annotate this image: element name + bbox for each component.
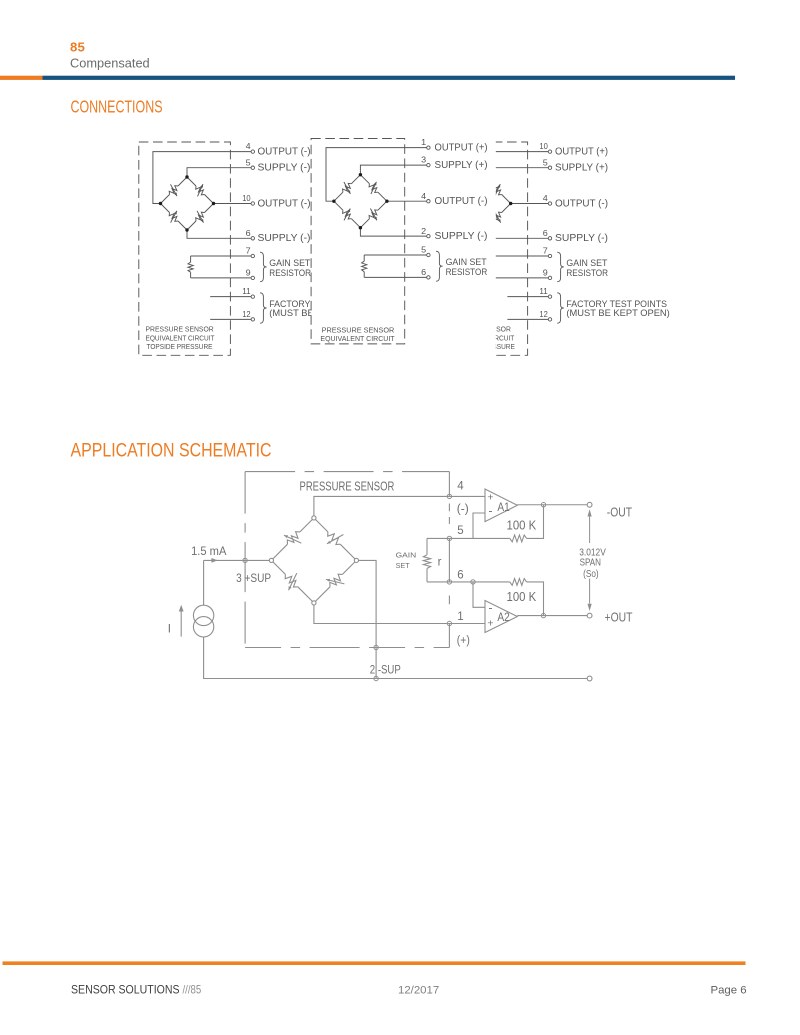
wire A2 output to +OUT xyxy=(517,615,587,617)
circuit 2 terminal pin 1 xyxy=(427,146,430,149)
circuit 3 terminal pin 6 xyxy=(548,237,551,240)
current source I xyxy=(193,605,213,625)
circuit 2 terminal pin 4 xyxy=(427,200,430,203)
wire A2 non-inverting input xyxy=(449,623,485,625)
svg-text:A1: A1 xyxy=(497,500,510,514)
circuit 1 gain set brace xyxy=(260,252,267,282)
svg-text:2: 2 xyxy=(421,226,426,236)
circuit 1 factory test point wires xyxy=(210,297,251,320)
svg-text:3 +SUP: 3 +SUP xyxy=(236,571,271,585)
terminal pin 2 -SUP xyxy=(374,645,378,649)
op-amp A1 xyxy=(485,489,517,522)
svg-text:11: 11 xyxy=(539,286,548,296)
circuit 2 terminal pin 5 xyxy=(427,253,430,256)
circuit 1 terminal pin 6 xyxy=(251,237,254,240)
svg-text:SUPPLY (-): SUPPLY (-) xyxy=(258,233,311,244)
circuit 1 bridge node left xyxy=(159,202,162,205)
circuit 3 bridge node left xyxy=(456,202,459,205)
circuit 3 bridge node top xyxy=(483,175,486,178)
svg-text:OUTPUT (+): OUTPUT (+) xyxy=(435,143,488,154)
circuit 3 terminal pin 12 xyxy=(548,318,551,321)
sensor bridge node top xyxy=(312,516,316,520)
circuit 2 dashed box xyxy=(311,139,405,344)
circuit 1 terminal pin 11 xyxy=(251,295,254,298)
svg-text:10: 10 xyxy=(539,141,548,151)
wire current source top xyxy=(203,560,205,605)
circuit 3 wire pin 6 xyxy=(484,230,548,238)
sensor bridge node bottom xyxy=(312,601,316,605)
svg-text:SUPPLY (+): SUPPLY (+) xyxy=(555,163,608,174)
circuit 3 wire pin 5 xyxy=(484,168,548,177)
terminal junction -SUP rail xyxy=(374,676,378,680)
circuit 1 terminal pin 9 xyxy=(251,276,254,279)
circuit 3 terminal pin 10 xyxy=(548,150,551,153)
svg-text:OUTPUT (-): OUTPUT (-) xyxy=(435,196,488,207)
svg-text:SUPPLY (-): SUPPLY (-) xyxy=(258,163,311,174)
terminal junction A2 output xyxy=(541,613,545,617)
svg-text:9: 9 xyxy=(246,268,251,278)
terminal pin 5 xyxy=(447,536,451,540)
circuit 3 gain set resistor xyxy=(488,256,549,278)
wire bridge bottom to pin 1 xyxy=(314,603,450,624)
svg-text:RESISTOR: RESISTOR xyxy=(566,268,608,279)
circuit 2 terminal pin 6 xyxy=(427,276,430,279)
svg-text:-OUT: -OUT xyxy=(607,504,632,519)
svg-text:3: 3 xyxy=(421,155,426,165)
svg-text:-: - xyxy=(489,503,493,517)
wire A1 inverting input xyxy=(473,513,485,538)
circuit 2 gain set resistor xyxy=(364,255,427,277)
wire bridge right to -SUP xyxy=(356,560,376,678)
svg-text:(+): (+) xyxy=(457,635,470,647)
svg-text:CONNECTIONS: CONNECTIONS xyxy=(71,96,163,116)
circuit 1 factory test brace xyxy=(260,293,267,323)
svg-text:4: 4 xyxy=(246,141,251,151)
svg-text:1: 1 xyxy=(421,137,426,147)
svg-text:6: 6 xyxy=(421,267,426,277)
span measurement arrow xyxy=(589,514,591,543)
sensor bridge node left xyxy=(269,558,273,562)
svg-text:1.5 mA: 1.5 mA xyxy=(191,544,226,558)
terminal pin 1 xyxy=(447,621,451,625)
svg-text:12: 12 xyxy=(539,309,548,319)
svg-text:A2: A2 xyxy=(497,610,510,624)
circuit 3 dashed box xyxy=(436,142,528,355)
circuit 1 terminal pin 5 xyxy=(251,166,254,169)
svg-text:+: + xyxy=(487,492,493,504)
svg-text:100 K: 100 K xyxy=(507,590,537,604)
svg-text:+: + xyxy=(487,618,493,630)
output terminal -SUP output xyxy=(587,676,592,681)
current source direction arrow xyxy=(180,611,182,637)
svg-text:85: 85 xyxy=(70,40,85,55)
gain set resistor r xyxy=(426,538,428,554)
svg-text:PRESSURE SENSOR: PRESSURE SENSOR xyxy=(322,326,395,335)
svg-text:OUTPUT (+): OUTPUT (+) xyxy=(555,147,608,158)
circuit 3 bridge resistor lower-left xyxy=(458,204,485,231)
circuit 1 bridge node bottom xyxy=(185,228,188,231)
svg-text:1: 1 xyxy=(457,611,463,623)
circuit 3 terminal pin 9 xyxy=(548,276,551,279)
svg-text:6: 6 xyxy=(246,228,251,238)
svg-text:GAIN: GAIN xyxy=(396,550,417,559)
header rule blue segment xyxy=(43,76,736,80)
svg-text:5: 5 xyxy=(543,157,548,167)
svg-text:EQUIVALENT CIRCUIT: EQUIVALENT CIRCUIT xyxy=(320,334,395,343)
header rule orange segment xyxy=(0,76,43,80)
circuit 2 bridge resistor upper-left xyxy=(334,175,361,202)
circuit 2 gain set brace xyxy=(436,251,443,281)
svg-text:6: 6 xyxy=(543,228,548,238)
terminal pin 3 +SUP xyxy=(243,558,247,562)
circuit 1 bridge resistor lower-left xyxy=(161,204,188,231)
circuit 1 wire pin 4 xyxy=(153,152,251,204)
circuit 3 terminal pin 5 xyxy=(548,166,551,169)
circuit 1 bridge resistor upper-left xyxy=(161,177,188,204)
svg-text:SPAN: SPAN xyxy=(580,558,601,569)
svg-text:5: 5 xyxy=(246,157,251,167)
pressure sensor box right edge segments xyxy=(448,472,450,497)
svg-text:APPLICATION SCHEMATIC: APPLICATION SCHEMATIC xyxy=(71,441,272,462)
svg-text:5: 5 xyxy=(421,245,426,255)
svg-text:TOPSIDE PRESSURE: TOPSIDE PRESSURE xyxy=(147,342,213,351)
svg-text:(So): (So) xyxy=(583,569,599,580)
node 6 net wire with feedback to A2 output xyxy=(427,581,510,583)
output terminal +OUT xyxy=(587,613,592,618)
svg-text:I: I xyxy=(168,624,171,636)
terminal pin 6 xyxy=(447,580,451,584)
wire current source bottom / -SUP bottom rail xyxy=(204,637,588,679)
svg-text:Page 6: Page 6 xyxy=(711,985,747,997)
circuit 3 bridge resistor lower-right xyxy=(484,204,511,231)
circuit 3 gain set brace xyxy=(557,252,564,282)
svg-text:PRESSURE SENSOR: PRESSURE SENSOR xyxy=(300,479,395,493)
sensor bridge resistor lower-right xyxy=(314,560,357,603)
svg-text:(-): (-) xyxy=(457,504,469,516)
current flow arrow on wire xyxy=(211,559,218,561)
svg-text:SUPPLY (+): SUPPLY (+) xyxy=(435,160,488,171)
wire supply input to bridge left (1.5 mA feed) xyxy=(204,559,272,561)
circuit 3 wire pin 10 xyxy=(450,152,548,204)
node 5 net wire with feedback to A1 output xyxy=(427,537,510,539)
circuit 1 terminal pin 7 xyxy=(251,254,254,257)
svg-text:7: 7 xyxy=(246,246,251,256)
circuit 1 bridge resistor lower-right xyxy=(187,204,214,231)
svg-text:(MUST BE KEPT OPEN): (MUST BE KEPT OPEN) xyxy=(566,308,669,319)
svg-text:100 K: 100 K xyxy=(507,518,537,532)
svg-text:2 -SUP: 2 -SUP xyxy=(370,663,401,677)
svg-text:10: 10 xyxy=(242,193,251,203)
sensor bridge resistor lower-left xyxy=(271,560,314,603)
circuit 1 terminal pin 12 xyxy=(251,318,254,321)
circuit 2 bridge resistor lower-left xyxy=(334,201,361,228)
wire A1 non-inverting input xyxy=(449,495,485,497)
terminal pin 4 xyxy=(447,494,451,498)
svg-text:12/2017: 12/2017 xyxy=(398,985,439,997)
circuit 2 bridge node bottom xyxy=(359,226,362,229)
circuit 2 wire pin 3 xyxy=(360,165,426,175)
circuit 3 terminal pin 11 xyxy=(548,295,551,298)
circuit 2 wire pin 4 xyxy=(387,200,427,202)
terminal junction node 6 xyxy=(471,580,475,584)
svg-text:EQUIVALENT CIRCUIT: EQUIVALENT CIRCUIT xyxy=(146,333,215,342)
wire A1 output to -OUT xyxy=(517,504,587,506)
svg-text:6: 6 xyxy=(457,569,463,581)
circuit 3 terminal pin 4 xyxy=(548,202,551,205)
circuit 2 bridge node right xyxy=(385,200,388,203)
op-amp A2 xyxy=(485,601,517,633)
circuit 3 bridge node bottom xyxy=(483,228,486,231)
output terminal -OUT xyxy=(587,502,592,507)
circuit 1 bridge node top xyxy=(185,175,188,178)
circuit 1 wire pin 6 xyxy=(187,230,251,238)
circuit 2 bridge resistor lower-right xyxy=(360,201,387,228)
svg-text:SENSOR SOLUTIONS: SENSOR SOLUTIONS xyxy=(71,984,180,997)
circuit 3 terminal pin 7 xyxy=(548,254,551,257)
circuit 3 bridge node right xyxy=(509,202,512,205)
circuit 3 factory test point wires xyxy=(507,297,548,320)
svg-text:OUTPUT (-): OUTPUT (-) xyxy=(258,147,311,158)
svg-text:-: - xyxy=(489,601,493,615)
circuit 1 terminal pin 10 xyxy=(251,202,254,205)
svg-text:OUTPUT (-): OUTPUT (-) xyxy=(258,198,311,209)
terminal junction A1 output xyxy=(541,503,545,507)
svg-text:Compensated: Compensated xyxy=(70,55,150,70)
circuit 1 gain set resistor xyxy=(191,256,252,278)
circuit 1 wire pin 5 xyxy=(187,168,251,177)
circuit 3 bridge resistor upper-left xyxy=(458,177,485,204)
svg-text:12: 12 xyxy=(242,309,251,319)
circuit 3 bridge resistor upper-right xyxy=(484,177,511,204)
svg-text:7: 7 xyxy=(543,246,548,256)
circuit 2 wire pin 1 xyxy=(326,148,427,202)
circuit 1 terminal pin 4 xyxy=(251,150,254,153)
svg-text:4: 4 xyxy=(421,191,426,201)
circuit 1 bridge node right xyxy=(212,202,215,205)
footer orange rule xyxy=(3,961,746,965)
circuit 2 bridge node left xyxy=(332,200,335,203)
svg-text:OUTPUT (-): OUTPUT (-) xyxy=(555,198,608,209)
circuit 2 terminal pin 2 xyxy=(427,234,430,237)
svg-text:5: 5 xyxy=(457,525,463,537)
svg-text:PRESSURE SENSOR: PRESSURE SENSOR xyxy=(146,325,214,334)
wire bridge top to pin 4 xyxy=(314,496,450,518)
circuit 1 wire pin 10 xyxy=(214,203,252,205)
sensor bridge resistor upper-right xyxy=(314,518,357,561)
circuit 2 bridge node top xyxy=(359,173,362,176)
svg-text:4: 4 xyxy=(543,193,548,203)
svg-text:SET: SET xyxy=(396,561,411,570)
svg-text:///85: ///85 xyxy=(183,984,202,997)
svg-text:r: r xyxy=(438,557,442,569)
circuit 1 dashed box xyxy=(139,142,231,355)
pressure sensor dashed box xyxy=(245,471,449,473)
sensor bridge resistor upper-left xyxy=(271,518,314,561)
circuit 3 factory test brace xyxy=(557,293,564,323)
svg-text:RESISTOR: RESISTOR xyxy=(269,268,311,279)
white cover over clipped circuit 3 xyxy=(406,133,496,361)
svg-text:11: 11 xyxy=(242,286,251,296)
svg-text:9: 9 xyxy=(543,268,548,278)
wire A2 inverting input xyxy=(473,582,485,607)
svg-text:+OUT: +OUT xyxy=(605,610,633,625)
circuit 1 bridge resistor upper-right xyxy=(187,177,214,204)
circuit 3 wire pin 4 xyxy=(511,203,549,205)
circuit 2 bridge resistor upper-right xyxy=(360,175,387,202)
svg-text:SUPPLY (-): SUPPLY (-) xyxy=(555,233,608,244)
circuit 2 terminal pin 3 xyxy=(427,163,430,166)
circuit 2 wire pin 2 xyxy=(360,228,426,236)
svg-text:RESISTOR: RESISTOR xyxy=(446,267,488,278)
svg-text:SUPPLY (-): SUPPLY (-) xyxy=(435,231,488,242)
sensor bridge node right xyxy=(354,558,358,562)
svg-text:4: 4 xyxy=(457,481,464,493)
